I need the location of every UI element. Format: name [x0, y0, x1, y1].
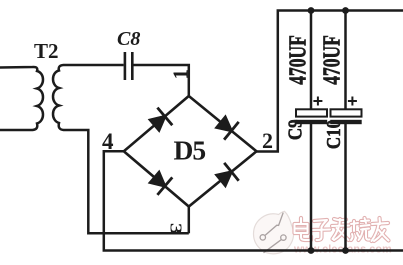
- svg-text:T2: T2: [34, 39, 59, 63]
- svg-text:2: 2: [262, 128, 273, 153]
- svg-text:C8: C8: [117, 28, 140, 50]
- svg-text:C9: C9: [284, 119, 307, 140]
- svg-text:4: 4: [102, 129, 114, 154]
- svg-text:470UF: 470UF: [284, 35, 312, 85]
- svg-text:1: 1: [169, 69, 193, 80]
- svg-text:3: 3: [166, 223, 185, 235]
- svg-text:C10: C10: [323, 120, 346, 149]
- svg-text:470UF: 470UF: [318, 35, 346, 85]
- svg-text:D5: D5: [174, 135, 206, 166]
